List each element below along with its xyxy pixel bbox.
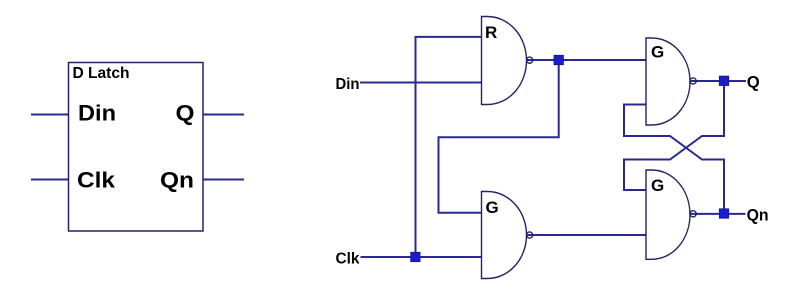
wire Clk input (left of block) [31,179,69,181]
wire R output feedback down-left-down into G1 upper input [439,60,559,213]
bubble of gate U3 [690,78,696,84]
wire Q output (right of block) [203,114,245,116]
wire G1 output to U4 lower input [526,234,646,236]
bubble of gate G1 [527,232,533,238]
svg-text:Qn: Qn [160,168,194,193]
svg-text:Din: Din [336,76,360,93]
svg-text:Q: Q [747,72,760,91]
nand gate G1 (bottom-left) [482,192,527,279]
junction at R output [554,55,563,64]
junction at Clk riser [411,252,420,261]
wire Qn cross-coupled feedback to U3 lower input [624,105,724,214]
wire Din to gate R lower input [360,82,482,84]
svg-text:Din: Din [78,101,116,126]
svg-text:G: G [486,198,499,217]
svg-text:Clk: Clk [77,168,116,193]
wire R output to U3 upper input [526,59,646,61]
wire Clk vertical riser to gate R top input [416,37,482,257]
svg-text:Clk: Clk [336,251,360,268]
D latch block body [69,63,204,232]
svg-text:Qn: Qn [747,206,769,225]
nand gate U3 (top-right) [646,38,690,125]
bubble of gate U4 [690,211,696,217]
nand gate R (top-left) [482,17,527,105]
bubble of gate R [527,57,533,63]
svg-text:Q: Q [176,101,195,126]
svg-text:G: G [651,176,664,195]
wire U3 output to node Q [690,80,746,82]
junction at node Qn [719,209,728,218]
wire Q cross-coupled feedback to U4 upper input [624,81,724,190]
nand gate U4 (bottom-right) [646,170,690,259]
svg-text:R: R [485,23,497,42]
svg-text:D Latch: D Latch [73,65,130,82]
wire Din input (left of block) [31,114,69,116]
wire Clk horizontal to gate G1 lower input [361,256,482,258]
wire U4 output to node Qn [690,213,746,215]
svg-text:G: G [651,43,664,62]
junction at node Q [719,76,728,85]
wire Qn output (right of block) [203,179,245,181]
